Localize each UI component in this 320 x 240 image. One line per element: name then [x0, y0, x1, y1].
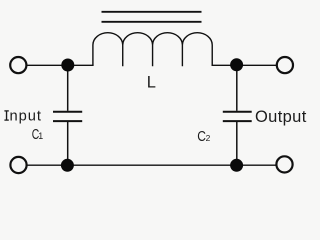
- svg-text:2: 2: [206, 133, 211, 143]
- svg-text:Input: Input: [5, 109, 42, 125]
- svg-text:1: 1: [38, 131, 43, 141]
- svg-text:Output: Output: [255, 108, 307, 126]
- svg-text:L: L: [147, 74, 156, 92]
